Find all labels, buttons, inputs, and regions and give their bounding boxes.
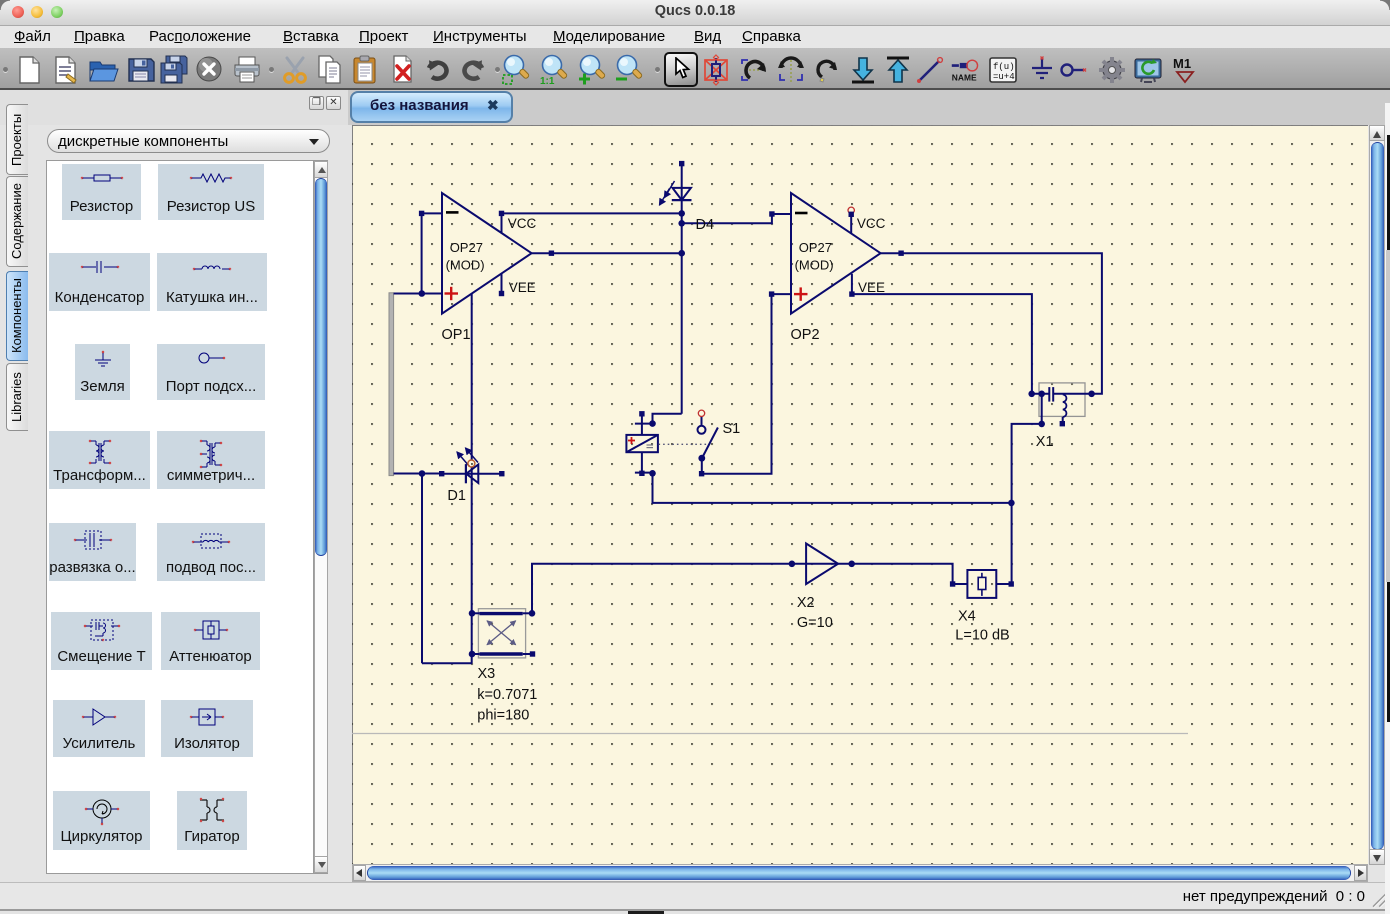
svg-text:OP2: OP2 [791,327,820,343]
pin relay coil bottom [639,471,644,476]
zoom 1:1 [538,54,570,86]
svg-text:OP27: OP27 [450,240,483,255]
mirror about x [775,54,807,86]
label NAME [950,54,982,86]
pin relay coil top [639,411,644,416]
svg-text:X4: X4 [958,609,976,625]
wire: OP2 output to X1 right [901,253,1102,394]
pin OP2 output [898,251,903,256]
wire: X2 output to X4 input [852,564,953,584]
wire: X1 bottom to X4 right vertical [1012,424,1042,584]
wire: relay bottom to X4 junction [653,473,1012,503]
copy [314,54,346,86]
wire: OP1 VCC to D4 [502,212,682,214]
svg-text:VEE: VEE [858,280,885,295]
svg-text:X3: X3 [478,666,496,682]
print [231,54,263,86]
wire: D4 column to relay [653,414,682,424]
op-amp OP2 [772,193,902,314]
junction X1 internal node [1038,391,1045,398]
right screen edge beyond window [1385,103,1390,914]
new [13,54,45,86]
delete [387,54,419,86]
svg-text:1:1: 1:1 [540,76,555,86]
wire: through D1 down to X3 left pins [471,467,473,663]
pin S1 bottom terminal [699,471,704,476]
op-amp OP1 [422,193,552,314]
svg-text:G=10: G=10 [797,615,833,631]
junction X3 port 1 [469,610,476,617]
wire tool [914,54,946,86]
port tool [1057,54,1089,86]
gray bus bar [389,293,394,476]
wire: OP2 VEE to X1 left [852,294,1032,394]
svg-text:NAME: NAME [952,73,977,83]
pin OP2 noninverting input [769,291,774,296]
rotate ccw [738,54,770,86]
pin X1 inductor bottom [1060,421,1065,426]
wire: X3 top right up and to X2 input [532,564,792,614]
svg-text:OP1: OP1 [442,327,471,343]
dark notch at bottom centre (background behind window) [628,911,664,914]
coupler X3 [472,609,533,658]
wire: OP1 feedback vertical [421,213,423,293]
wire: left vertical to X3 bottom [421,474,423,664]
svg-text:(MOD): (MOD) [795,258,834,273]
vertical tabs [6,104,28,175]
junction relay bottom contact [649,470,656,477]
junction at OP1 noninverting input [419,290,426,297]
pin X4 output [1009,581,1014,586]
open [87,54,119,86]
wire: OP1 output to D4 column [551,252,681,254]
pin OP1 output [549,251,554,256]
status bar [0,882,1390,911]
switch S1 [698,417,718,474]
component move icon (red crossed box) [700,54,732,86]
svg-text:VCC: VCC [508,216,537,231]
push down [847,54,879,86]
zoom fit [500,54,532,86]
subcircuit X1 (LC resonator) [1032,383,1092,424]
paste [349,54,381,86]
component list [46,160,314,874]
menu bar [0,26,1390,48]
component buttons: schematic glyph icons are navy strokes with red pin x-marks [62,164,141,220]
open node near D1 [468,460,475,467]
wire: OP1 hypotenuse down to D1 node [471,294,473,460]
settings gear [1096,54,1128,86]
wire: D4 vertical column [681,164,683,414]
junction D4 cathode / OP1 VCC [678,210,685,217]
canvas [352,125,1368,864]
svg-text:VEE: VEE [509,280,536,295]
pin D4 anode [679,161,684,166]
svg-text:phi=180: phi=180 [477,708,529,724]
svg-text:M1: M1 [1173,56,1191,71]
junction OP1 output [678,250,685,257]
svg-text:k=0.7071: k=0.7071 [477,687,537,703]
svg-text:S1: S1 [723,421,741,437]
junction at D1 anode wire [419,470,426,477]
wire: bar bottom to D1 [394,473,442,475]
LED D4 [660,181,692,205]
cursor pressed button [664,52,698,87]
svg-text:X1: X1 [1036,434,1054,450]
zoom in [576,54,608,86]
svg-text:=u+4: =u+4 [993,72,1015,82]
separator dots [3,67,8,72]
simulate [1132,54,1164,86]
junction X2 output [848,561,855,568]
svg-text:OP27: OP27 [799,240,832,255]
relay (coil + contacts) [626,414,658,474]
toolbar [0,48,1390,90]
attenuator X4 [953,570,1012,598]
junction X3 port 3 [469,651,476,658]
close [193,54,225,86]
pin OP2 inverting input [769,211,774,216]
pin X3 port 4 (open) [530,651,535,656]
v scrollbar [1369,125,1385,865]
title bar [0,0,1390,26]
wire: S1 bottom to OP2 plus input [702,294,772,474]
svg-text:VCC: VCC [857,216,886,231]
pin OP2 VCC [849,212,854,217]
LED D1 [442,448,502,483]
junction X1 right pin [1088,391,1095,398]
redo [457,54,489,86]
pin D1 cathode [439,471,444,476]
junction X3 port 2 [529,610,536,617]
pin OP1 VEE [499,291,504,296]
new text [50,54,82,86]
pin OP1 inverting input [419,211,424,216]
page boundary line [352,733,1188,735]
svg-text:D4: D4 [696,217,715,233]
junction bottom bus to X4 [1008,500,1015,507]
dotted grid [352,125,1368,864]
save all [158,54,190,86]
junction D4 column to OP2 inverting input [678,220,685,227]
junction X2 input [789,561,796,568]
dock float/close buttons [309,96,324,110]
svg-text:(MOD): (MOD) [446,258,485,273]
relay-to-switch dotted link [659,443,707,445]
svg-text:L=10 dB: L=10 dB [955,628,1009,644]
svg-text:D1: D1 [447,488,466,504]
wire: bar top to OP1 plus input [394,293,422,295]
undo [422,54,454,86]
svg-text:f(u): f(u) [993,62,1015,72]
open node at OP2 VCC [848,207,854,213]
tab row [0,90,348,125]
pop up [882,54,914,86]
wire: D4 node to OP2 minus input [682,214,772,223]
ground tool [1026,54,1058,86]
amplifier X2 [806,544,838,585]
pin OP2 VEE [849,291,854,296]
junction X1 left pin [1028,391,1035,398]
marker M1 [1169,54,1201,86]
combo [47,129,330,153]
pin D1 anode [499,471,504,476]
wire: bottom horizontal to X3 [422,662,472,664]
junction X1 bottom node [1038,421,1045,428]
save [125,54,157,86]
pin OP1 VCC [499,211,504,216]
svg-text:X2: X2 [797,595,815,611]
junction relay top contact [649,420,656,427]
junction S1 pole [698,455,705,462]
zoom out [613,54,645,86]
h scrollbar [352,864,1368,882]
pin X4 input [950,581,955,586]
rotate small [812,54,844,86]
scissors [279,54,311,86]
equation [987,54,1019,86]
component list scrollbar [314,161,328,873]
wire: X2 through line [792,563,852,565]
